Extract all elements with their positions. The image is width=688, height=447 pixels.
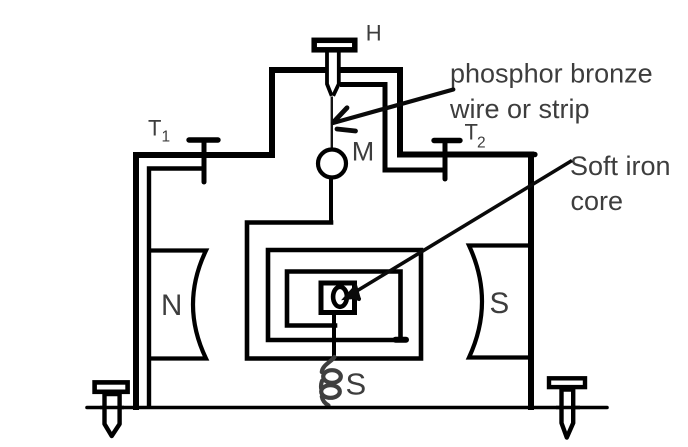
magnet N (left pole piece, concave face) (149, 251, 206, 359)
levelling screw left (95, 382, 128, 436)
svg-text:S: S (346, 367, 367, 402)
svg-text:2: 2 (477, 135, 486, 152)
svg-text:phosphor bronze: phosphor bronze (450, 59, 653, 89)
svg-text:M: M (352, 137, 375, 167)
phosphor bronze suspension wire (thin) (331, 97, 333, 150)
svg-text:H: H (366, 21, 382, 46)
terminal T2 (434, 141, 460, 180)
mirror M (circle) (318, 150, 346, 178)
svg-text:wire or strip: wire or strip (449, 94, 590, 124)
wire: inner left bracket to terminal T1 (149, 169, 204, 408)
svg-text:core: core (571, 186, 624, 216)
wire overshoot at right shoulder corner (531, 152, 535, 158)
suspension sleeve below H (327, 53, 339, 96)
torsion head H (314, 40, 355, 50)
magnet S (right pole piece, concave face) (469, 246, 531, 358)
outer case outline left: wall, shoulder, riser (136, 70, 326, 407)
svg-text:S: S (490, 287, 510, 320)
base line (87, 406, 607, 410)
soft iron core (oval) (333, 287, 347, 307)
svg-text:Soft iron: Soft iron (570, 151, 671, 181)
svg-text:1: 1 (162, 129, 171, 146)
arrow to soft iron core (344, 161, 573, 300)
svg-text:T: T (148, 116, 161, 141)
coil (rectangular spiral) (247, 223, 421, 359)
outer case outline right: top, riser, shoulder, wall (340, 70, 531, 407)
svg-text:N: N (161, 289, 182, 322)
wire: inner right bracket from sleeve to terminal T2 (340, 85, 446, 171)
wire junction tick at coil corner (396, 337, 407, 343)
wire: core square to spring (332, 314, 336, 359)
terminal T1 (189, 140, 218, 182)
arrow to suspension wire (333, 90, 453, 132)
core holder square (321, 283, 355, 313)
spring S (hair spring below coil) (321, 357, 341, 406)
wire: mirror to coil (329, 178, 333, 224)
levelling screw right (549, 378, 585, 437)
